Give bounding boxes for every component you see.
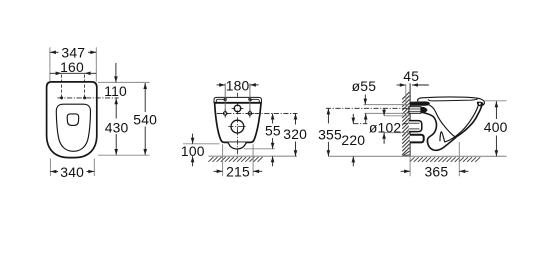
svg-text:540: 540 [133,111,157,127]
middle view: ground hatching [208,157,262,162]
dim ø102 text + leader arrows [369,108,402,143]
dim 340 extension lines [50,159,94,177]
right view: bowl inner sweep from hinge tail [429,105,455,137]
left view: fixing hole centerline right (dash) with dot [83,75,86,100]
middle view: body bottom extension line (left) [183,143,220,145]
dim 45 arrows + text [397,68,429,87]
dim 400 arrows + text [484,101,508,156]
right view: seat underside line [428,99,478,101]
dim 347 arrows + text [50,45,96,61]
right view: seat hinge bar (filled) [410,102,429,106]
right view: outlet centerline (dash-dot) [353,123,409,125]
right view: ground hatching [410,157,481,162]
middle view: seat and lid top bar [214,97,262,102]
middle view: lid bumper notch left [216,99,225,102]
left view: top edge extension line [98,81,150,83]
right view: toilet back line [409,83,411,156]
dim 540 arrows + text [133,83,157,155]
right view: wall face extension line (45 left) [405,85,407,107]
left view: horizontal centerline through fixing holes (dash-dot) [58,97,119,99]
right view: wall hatching [402,92,409,156]
right view: inlet bottom reference line [364,112,409,114]
right view: inlet centerline (dash-dot) [326,107,411,109]
right view: soil outlet pipe [409,121,422,132]
svg-text:220: 220 [341,132,365,148]
left view: bottom edge extension line [98,154,150,156]
middle view: fixing hole left (crosshair) [221,109,229,117]
right view: lid top profile [418,97,485,105]
left view: seat ring [56,104,90,151]
dim 355 arrows + text [318,108,342,156]
middle view: water inlet hole (small crosshair circle) [232,103,244,115]
dim 180 extension lines [225,83,250,110]
middle view: ground line [208,155,297,157]
middle view: lid bumper notch right [250,99,259,102]
right view: bowl inner line front + trapway notch [440,105,478,142]
dim 160 line + arrows + text [50,59,96,75]
middle view: foot (trap cover) [228,142,247,149]
dim 430 arrows + text [105,98,129,155]
left view: fixing hole centerline left (dash) with dot [60,75,63,100]
right view: inlet top reference line [364,104,409,106]
svg-text:ø55: ø55 [352,78,377,94]
right view: inlet pipe nozzle (filled wedge) [421,107,428,113]
dim 365 arrows + text [401,164,469,180]
dim 55 arrows + text [265,114,281,167]
right view: back band under inlet [423,113,433,117]
right view: outlet top reference line [384,115,409,117]
middle view: hinge dots [224,98,252,101]
svg-text:160: 160 [60,59,84,75]
svg-text:400: 400 [484,119,508,135]
right view: water inlet pipe [409,107,421,114]
dim 215 extension lines [223,144,254,176]
svg-text:45: 45 [403,68,419,84]
dim 347 extension lines [50,47,96,81]
right view: bowl outer silhouette [427,105,482,151]
dim 110 arrows + text [104,63,127,99]
svg-text:ø102: ø102 [369,119,402,135]
middle view: WC body outline (rear view) [215,103,261,142]
svg-text:180: 180 [226,77,250,93]
right view: seat bumper (filled wedge) [477,102,483,107]
dim 180 arrows + text [217,77,259,93]
svg-text:215: 215 [226,164,250,180]
middle view: foot bottom extension line (right) [244,148,275,150]
middle view: soil outlet circle [231,120,244,133]
dim 220 arrows + text [341,114,365,167]
svg-text:110: 110 [104,83,127,99]
dim 400 top extension line [484,100,507,102]
dim 340 arrows + text [50,164,94,180]
dim ø55 text + leader arrows [352,78,377,123]
left view: flush distributor outline [67,114,79,126]
middle view: vertical centerline (dash-dot) [236,93,238,157]
dim 100 arrows + text [181,134,205,167]
middle view: fixing holes horizontal centerline (dash-dot) [217,112,298,114]
dim 365 extension left below ground [409,156,411,176]
svg-text:340: 340 [60,164,84,180]
svg-text:365: 365 [425,164,449,180]
left view: WC pan outline (top/plan view) [47,82,97,158]
svg-text:355: 355 [318,127,342,143]
dim 365 extension right [458,142,460,176]
right view: bowl body fill (white) [410,99,484,151]
middle view: outlet crosshair centerlines (dash-dot) [228,117,247,136]
dim 320 arrows + text [283,114,307,157]
middle view: fixing hole right (crosshair) [246,109,254,117]
dim 215 arrows + text [214,164,263,180]
right view: outlet bottom reference line [384,132,409,134]
right view: ground line [328,155,506,157]
right view: wall duct bracket (C-shape) [410,135,424,143]
svg-text:55: 55 [265,123,281,139]
svg-text:430: 430 [105,119,129,135]
svg-text:320: 320 [283,126,307,142]
